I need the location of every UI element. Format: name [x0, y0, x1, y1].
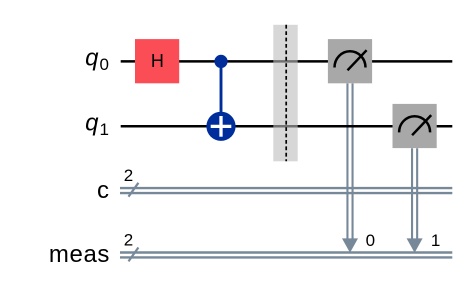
measure arrow from M0 to meas (double vertical line + arrowhead)	[347, 83, 352, 243]
svg-text:2: 2	[124, 166, 133, 185]
qubit wire q0	[121, 60, 453, 63]
svg-text:0: 0	[366, 231, 375, 250]
svg-text:1: 1	[100, 120, 109, 139]
gate H (hadamard)	[135, 39, 179, 83]
svg-text:1: 1	[431, 231, 440, 250]
CNOT control dot on q0	[214, 55, 227, 68]
barrier (translucent band)	[273, 25, 297, 162]
register-size slash on meas	[129, 248, 139, 262]
measure gate M0 on q0	[328, 39, 372, 83]
qubit wire q1	[121, 125, 453, 128]
svg-text:q: q	[85, 44, 99, 71]
svg-text:0: 0	[100, 55, 109, 74]
measure arrow from M1 to meas (double vertical line + arrowhead)	[412, 148, 417, 243]
register-size slash on c	[129, 183, 139, 197]
svg-text:meas: meas	[49, 241, 110, 268]
CNOT target on q1 (X)	[206, 112, 235, 141]
svg-text:2: 2	[124, 230, 133, 249]
svg-text:H: H	[151, 51, 164, 71]
classical wire meas (double line)	[120, 253, 452, 258]
measure gate M1 on q1	[393, 104, 437, 148]
classical wire c (double line)	[120, 188, 452, 193]
svg-text:q: q	[85, 109, 99, 136]
svg-text:c: c	[97, 177, 109, 204]
CNOT vertical line	[220, 61, 223, 126]
barrier dashed line	[285, 25, 287, 162]
